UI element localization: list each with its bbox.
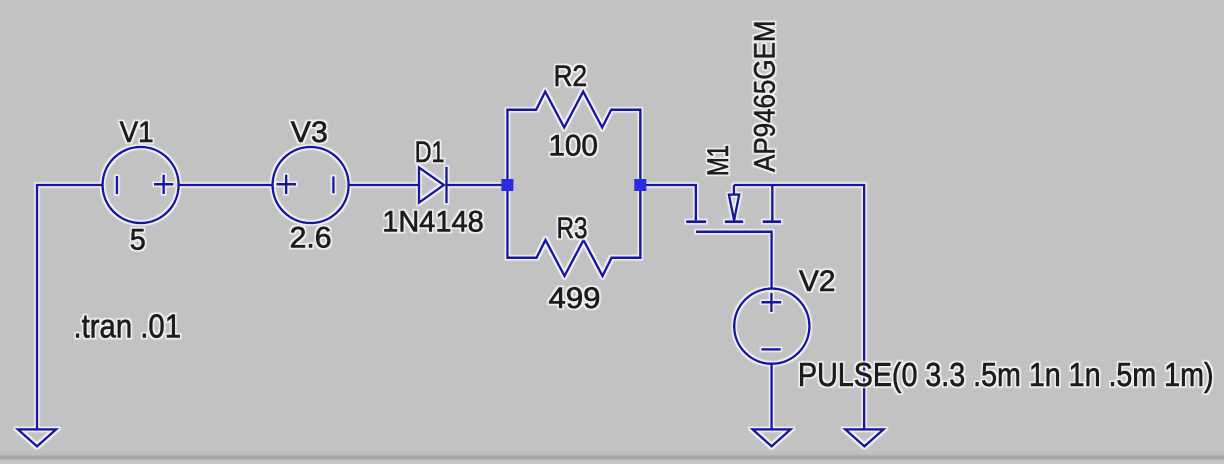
svg-text:V2: V2 — [799, 265, 836, 298]
resistor R3 (bottom branch with risers) — [507, 185, 640, 276]
M1 bulk lead — [733, 185, 736, 194]
svg-text:1N4148: 1N4148 — [382, 206, 484, 239]
wire M1 source/bulk to right riser and down to ground — [734, 185, 864, 429]
junction node left — [501, 179, 513, 191]
ground (under V2) — [753, 429, 791, 446]
svg-text:R2: R2 — [554, 60, 588, 93]
diode D1 — [419, 167, 447, 204]
wire V1 to V3 — [179, 184, 273, 187]
wire: left riser from ground up and over to V1 — [37, 185, 103, 429]
M1 source contact bar — [763, 220, 782, 223]
M1 source lead — [771, 185, 774, 221]
voltage source V1 — [103, 147, 179, 223]
wire D1 to node — [447, 184, 504, 187]
resistor R2 (top branch with risers) — [507, 92, 640, 185]
wire V2 to ground — [770, 364, 773, 429]
mosfet M1 — [686, 185, 781, 289]
M1 bulk arrow — [729, 195, 739, 221]
svg-text:V3: V3 — [291, 116, 328, 149]
junction node right — [634, 179, 646, 191]
M1 drain contact bar — [686, 220, 706, 223]
svg-text:499: 499 — [549, 282, 601, 315]
bottom window edge line — [0, 451, 1224, 464]
M1 bulk contact bar — [725, 220, 744, 223]
ground (left) — [18, 429, 56, 446]
svg-text:V1: V1 — [120, 116, 154, 149]
svg-text:2.6: 2.6 — [290, 221, 332, 254]
svg-text:D1: D1 — [415, 136, 445, 169]
svg-text:5: 5 — [130, 224, 146, 257]
svg-text:M1: M1 — [702, 145, 735, 176]
wire V3 to D1 — [349, 184, 419, 187]
V3 minus mark — [332, 176, 335, 193]
D1 anode triangle — [419, 168, 444, 203]
voltage source V2 — [734, 289, 809, 364]
svg-text:100: 100 — [548, 129, 598, 162]
svg-text:PULSE(0 3.3 .5m 1n 1n .5m 1m): PULSE(0 3.3 .5m 1n 1n .5m 1m) — [798, 356, 1214, 393]
V2 minus mark — [761, 348, 780, 351]
svg-text:AP9465GEM: AP9465GEM — [749, 21, 782, 173]
M1 gate plate and wire to V2 — [696, 232, 772, 289]
voltage source V3 — [273, 147, 349, 223]
ground (right) — [845, 429, 883, 446]
svg-text:.tran .01: .tran .01 — [74, 308, 182, 345]
V2 plus mark — [761, 301, 781, 304]
V3 plus mark — [277, 183, 297, 186]
D1 cathode bar — [445, 167, 448, 204]
wire node to M1 drain — [640, 185, 696, 220]
V1 plus mark — [154, 183, 173, 186]
V1 minus mark — [116, 176, 119, 194]
svg-text:R3: R3 — [557, 212, 588, 245]
